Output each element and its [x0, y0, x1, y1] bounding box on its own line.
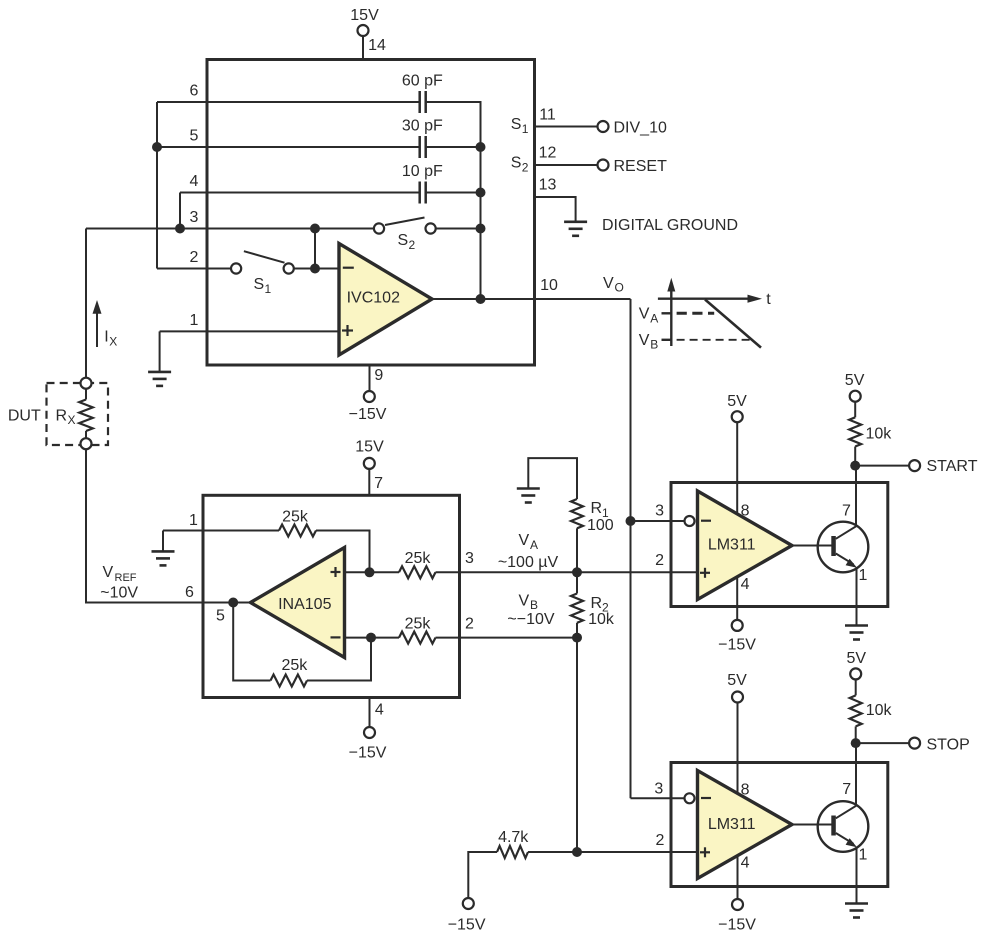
switch S1 arm — [244, 251, 285, 263]
svg-text:4: 4 — [741, 576, 750, 593]
wire pin1 to ground — [159, 331, 161, 372]
tick VB — [662, 339, 672, 341]
svg-text:V: V — [103, 564, 114, 581]
waveform ramp — [705, 300, 761, 348]
svg-text:O: O — [615, 281, 624, 295]
wire output pin 10 (Vo) — [432, 298, 631, 300]
svg-text:~10V: ~10V — [100, 584, 138, 601]
svg-text:S: S — [254, 276, 265, 293]
svg-text:R: R — [591, 595, 603, 612]
dashed line VA — [677, 312, 715, 315]
transistor Q1 base bar — [831, 536, 836, 556]
svg-text:5V: 5V — [727, 672, 747, 689]
ground (Q1 emitter) — [845, 626, 868, 640]
IC U3 LM311 package box — [671, 483, 888, 607]
svg-text:3: 3 — [654, 780, 663, 797]
svg-text:R: R — [56, 407, 68, 424]
ground (IVC102 pin 1) — [148, 372, 171, 386]
svg-text:5V: 5V — [727, 393, 747, 410]
wire pin1 ground stem — [162, 531, 164, 552]
U3 + mark — [700, 568, 710, 578]
svg-text:25k: 25k — [282, 657, 309, 674]
power terminal 15V (pin 7) — [364, 458, 375, 469]
ground (digital, pin 13) — [564, 222, 587, 236]
IC U2 INA105 package box — [203, 495, 460, 697]
wire pin 13 to ground — [535, 197, 576, 222]
svg-text:V: V — [603, 275, 614, 292]
ground (INA105 pin 1) — [152, 551, 175, 565]
svg-text:2: 2 — [465, 615, 474, 632]
wire U3 output to Q1 base — [792, 545, 832, 547]
op-amp U1 inverting input mark — [343, 267, 354, 269]
svg-text:8: 8 — [741, 781, 750, 798]
op-amp U2 INA105 triangle — [251, 548, 345, 658]
dashed line VB — [677, 339, 751, 341]
svg-text:4: 4 — [375, 702, 384, 719]
svg-text:1: 1 — [859, 847, 868, 864]
wire Vo to U3 pin 3 — [631, 520, 685, 522]
svg-text:LM311: LM311 — [708, 816, 756, 833]
junction pin5/6 node — [228, 598, 238, 608]
svg-text:S: S — [511, 116, 522, 133]
svg-text:6: 6 — [190, 82, 199, 99]
wire pin3 line down to DUT — [85, 229, 87, 378]
svg-text:−15V: −15V — [349, 744, 387, 761]
wire bottom 25k to -node — [307, 638, 371, 681]
svg-text:R: R — [591, 500, 603, 517]
wire U3 pin 4 supply — [736, 576, 738, 620]
U3 inverting input bubble — [685, 516, 695, 526]
transistor Q1 emitter arrow — [846, 559, 857, 568]
capacitor C1 60 pF — [420, 91, 426, 113]
terminal RESET — [598, 160, 609, 171]
wire 5V to 10k (STOP) — [855, 679, 857, 695]
svg-text:X: X — [109, 335, 117, 349]
switch S2 right contact — [426, 223, 436, 233]
wire Vo bus down — [630, 299, 632, 798]
ground (Q2 emitter) — [845, 904, 868, 918]
transistor Q2 emitter — [836, 833, 854, 844]
svg-text:−15V: −15V — [448, 916, 486, 933]
svg-text:4: 4 — [741, 854, 750, 871]
svg-text:V: V — [639, 306, 650, 323]
junction pin3/pin4 link — [175, 224, 185, 234]
svg-text:2: 2 — [656, 832, 665, 849]
svg-text:B: B — [650, 338, 658, 352]
svg-text:14: 14 — [368, 37, 386, 54]
wire pin 12 — [535, 164, 598, 166]
junction + output — [365, 567, 375, 577]
svg-text:15V: 15V — [350, 7, 379, 24]
svg-text:2: 2 — [409, 238, 416, 252]
wire Q2 emitter to ground — [856, 848, 858, 904]
wire VB bus down to 4.7k line — [576, 638, 578, 852]
wire pin 1 (noninverting input) — [160, 330, 339, 332]
transistor Q2 collector — [836, 743, 856, 818]
svg-text:30 pF: 30 pF — [402, 117, 443, 134]
op-amp U2 + mark — [331, 567, 341, 577]
svg-text:3: 3 — [190, 209, 199, 226]
wire 10k to START node — [854, 447, 856, 466]
resistor 25k (output pin 2) — [399, 632, 436, 644]
transistor Q2 emitter arrow — [846, 838, 857, 847]
terminal STOP — [909, 738, 920, 749]
junction - output — [366, 633, 376, 643]
wire U4 output to Q2 base — [792, 824, 832, 826]
svg-text:2: 2 — [655, 552, 664, 569]
resistor 4.7k — [497, 846, 528, 858]
svg-text:13: 13 — [539, 177, 557, 194]
svg-text:3: 3 — [655, 503, 664, 520]
waveform vertical axis — [670, 284, 672, 346]
junction 4.7k/VB bus — [572, 847, 582, 857]
comparator U4 triangle — [698, 771, 793, 879]
resistor 25k (bottom feedback) — [271, 675, 308, 687]
svg-text:8: 8 — [741, 503, 750, 520]
wire pin 1 net — [163, 530, 279, 532]
wire DUT bottom to Vref node — [86, 449, 251, 602]
IC U1 IVC102 package box — [207, 60, 535, 366]
op-amp U1 noninverting input mark — [342, 325, 353, 336]
resistor R1 zigzag — [571, 499, 583, 528]
U4 + mark — [700, 847, 710, 857]
svg-text:5: 5 — [190, 127, 199, 144]
svg-text:START: START — [927, 458, 978, 475]
svg-text:A: A — [650, 312, 658, 326]
svg-text:10k: 10k — [866, 426, 893, 443]
terminal 5V (START pullup) — [850, 391, 861, 402]
wire pin 4 supply — [369, 698, 371, 727]
wire - output line — [345, 637, 400, 639]
wire C2 right to bus — [426, 146, 481, 148]
terminal -15V (U4 pin 4) — [732, 899, 743, 910]
wire pin 2 to R2 node — [436, 637, 578, 639]
junction pin5/left bus — [152, 142, 162, 152]
svg-text:15V: 15V — [355, 438, 384, 455]
wire R1 to VA node — [576, 528, 578, 572]
svg-text:X: X — [68, 413, 76, 427]
wire pin4 to pin3 link — [179, 193, 181, 229]
svg-text:25k: 25k — [405, 615, 432, 632]
wire C3 right to bus — [426, 192, 481, 194]
svg-text:−15V: −15V — [718, 637, 756, 654]
svg-text:5V: 5V — [847, 650, 867, 667]
wire pin 7 supply — [368, 469, 370, 495]
transistor Q2 base bar — [831, 816, 836, 836]
terminal 5V (STOP pullup) — [850, 668, 861, 679]
svg-text:IVC102: IVC102 — [347, 290, 400, 307]
IC U4 LM311 package box — [671, 763, 888, 887]
wire U3 pin 8 supply — [736, 422, 738, 514]
junction Vo to comparator 1 — [626, 516, 636, 526]
power terminal 15V (pin 14) — [358, 25, 369, 36]
resistor 25k (pin1 feedback) — [279, 525, 316, 537]
svg-text:V: V — [519, 532, 530, 549]
svg-text:4: 4 — [190, 173, 199, 190]
terminal -15V (U3 pin 4) — [732, 620, 743, 631]
junction inv input link — [310, 264, 320, 274]
wire pin 2 (to S1) — [157, 268, 231, 270]
wire S2 right to bus — [436, 228, 481, 230]
svg-text:5V: 5V — [845, 372, 865, 389]
svg-text:DIGITAL GROUND: DIGITAL GROUND — [602, 217, 738, 234]
wire U4 pin 4 supply — [737, 856, 739, 899]
svg-text:25k: 25k — [405, 550, 432, 567]
svg-text:7: 7 — [374, 475, 383, 492]
svg-text:V: V — [639, 332, 650, 349]
junction S2-line/inv link top — [310, 224, 320, 234]
svg-text:A: A — [530, 538, 538, 552]
terminal DIV_10 — [598, 121, 609, 132]
svg-text:1: 1 — [859, 567, 868, 584]
U3 - mark — [701, 520, 711, 522]
waveform t axis arrowhead — [748, 295, 763, 303]
terminal -15V (INA105 pin 4) — [364, 727, 375, 738]
U4 - mark — [701, 797, 711, 799]
junction VB node — [572, 633, 582, 643]
svg-text:2: 2 — [190, 249, 199, 266]
resistor R2 zigzag — [571, 594, 583, 623]
wire pin 6 (to 60pF) — [157, 101, 419, 103]
svg-text:100: 100 — [587, 517, 614, 534]
resistor RX zigzag — [79, 400, 93, 432]
wire + output line — [345, 571, 400, 573]
svg-text:S: S — [511, 155, 522, 172]
wire C1 right to bus (corner) — [426, 102, 481, 147]
svg-text:6: 6 — [185, 584, 194, 601]
svg-text:I: I — [104, 329, 108, 346]
svg-text:−15V: −15V — [349, 406, 387, 423]
wire pin 9 — [369, 365, 371, 391]
wire left bus pins 6-2 — [156, 102, 158, 269]
svg-text:10k: 10k — [588, 611, 615, 628]
svg-text:60 pF: 60 pF — [402, 72, 443, 89]
transistor Q1 circle — [818, 522, 869, 573]
comparator U3 triangle — [698, 491, 793, 600]
wire pin 3 (input line to S2) — [86, 228, 374, 230]
wire -15V to 4.7k — [468, 852, 497, 898]
switch S1 right contact — [284, 263, 294, 273]
svg-text:10k: 10k — [866, 702, 893, 719]
junction STOP node — [851, 738, 861, 748]
svg-text:2: 2 — [522, 161, 529, 175]
wire 25k to +node — [316, 531, 370, 573]
capacitor C2 30 pF — [420, 136, 426, 158]
svg-text:RESET: RESET — [614, 158, 668, 175]
ground (R1 top) — [517, 489, 540, 503]
svg-text:3: 3 — [465, 550, 474, 567]
wire pin 11 — [535, 126, 598, 128]
wire 10k to STOP node — [855, 726, 857, 743]
terminal START — [909, 460, 920, 471]
resistor 25k (output pin 3) — [399, 566, 436, 578]
resistor 10k (STOP pullup) — [850, 695, 862, 726]
junction bus/30pF — [476, 142, 486, 152]
switch S2 left contact — [374, 223, 384, 233]
junction START node — [850, 461, 860, 471]
svg-text:4.7k: 4.7k — [498, 829, 529, 846]
capacitor C3 10 pF — [420, 182, 426, 204]
U4 inverting input bubble — [685, 793, 695, 803]
transistor Q1 collector — [836, 466, 856, 539]
terminal -15V (pin 9) — [364, 391, 375, 402]
wire VA to R2 — [576, 572, 578, 593]
svg-text:~−10V: ~−10V — [507, 611, 554, 628]
wire Vo to U4 pin 3 — [631, 797, 685, 799]
wire right feedback bus — [480, 147, 482, 299]
svg-text:7: 7 — [842, 781, 851, 798]
switch S2 arm — [385, 218, 425, 226]
terminal -15V (4.7k) — [463, 898, 474, 909]
svg-text:STOP: STOP — [927, 737, 970, 754]
wire pin 4 (to 10pF) — [180, 192, 419, 194]
svg-text:10 pF: 10 pF — [402, 163, 443, 180]
svg-text:DIV_10: DIV_10 — [614, 119, 667, 136]
junction bus/output — [476, 294, 486, 304]
svg-text:S: S — [398, 232, 409, 249]
wire pin5 node down — [233, 603, 270, 681]
svg-text:~100 µV: ~100 µV — [498, 554, 559, 571]
svg-text:1: 1 — [189, 512, 198, 529]
svg-text:INA105: INA105 — [278, 596, 331, 613]
svg-text:1: 1 — [190, 312, 199, 329]
wire Q1 emitter to ground — [856, 569, 858, 626]
op-amp U2 - mark — [331, 636, 341, 638]
svg-text:1: 1 — [522, 122, 529, 136]
svg-text:7: 7 — [842, 502, 851, 519]
wire pin 5 (to 30pF) — [157, 146, 419, 148]
svg-text:11: 11 — [539, 106, 556, 123]
junction VA node — [572, 567, 582, 577]
wire pin 3 to comparator — [436, 571, 698, 573]
svg-text:DUT: DUT — [8, 407, 41, 424]
svg-text:12: 12 — [539, 144, 557, 161]
svg-text:1: 1 — [265, 282, 272, 296]
tick VA — [662, 312, 672, 314]
svg-text:9: 9 — [374, 367, 383, 384]
svg-text:t: t — [766, 291, 771, 308]
junction bus/10pF — [476, 188, 486, 198]
wire S1 right to inverting input — [294, 268, 339, 270]
wire START node to terminal — [855, 465, 909, 467]
terminal DUT bottom — [81, 438, 92, 449]
junction bus/S2 line — [476, 224, 486, 234]
wire ground bracket to R1 — [528, 458, 577, 499]
wire pin 14 supply — [362, 36, 364, 60]
transistor Q2 circle — [818, 801, 869, 852]
DUT dashed enclosure — [47, 383, 109, 445]
transistor Q1 emitter — [836, 554, 854, 565]
svg-text:10: 10 — [540, 277, 558, 294]
wire STOP node to terminal — [856, 742, 909, 744]
terminal 5V (U3 pin 8) — [732, 411, 743, 422]
waveform horizontal t axis — [658, 298, 749, 300]
wire R2 to VB node — [576, 623, 578, 638]
svg-text:LM311: LM311 — [708, 537, 756, 554]
wire link S2 line to inv input — [314, 229, 316, 269]
current arrow Ix shaft — [96, 312, 98, 347]
current arrow Ix head — [93, 300, 102, 314]
svg-text:5: 5 — [216, 607, 225, 624]
resistor 10k (START pullup) — [849, 417, 861, 446]
svg-text:REF: REF — [115, 572, 137, 584]
svg-text:−15V: −15V — [718, 916, 756, 933]
wire U4 pin 8 supply — [737, 703, 739, 794]
wire 5V to 10k — [854, 402, 856, 418]
wire 4.7k to U4 pin 2 — [528, 851, 698, 853]
terminal DUT top — [81, 378, 92, 389]
resistor RX leads — [85, 389, 87, 400]
svg-text:25k: 25k — [282, 509, 309, 526]
terminal 5V (U4 pin 8) — [732, 692, 743, 703]
waveform vertical axis arrowhead — [667, 278, 675, 292]
switch S1 left contact — [231, 263, 241, 273]
svg-text:V: V — [519, 592, 530, 609]
op-amp U1 IVC102 triangle — [339, 244, 432, 356]
